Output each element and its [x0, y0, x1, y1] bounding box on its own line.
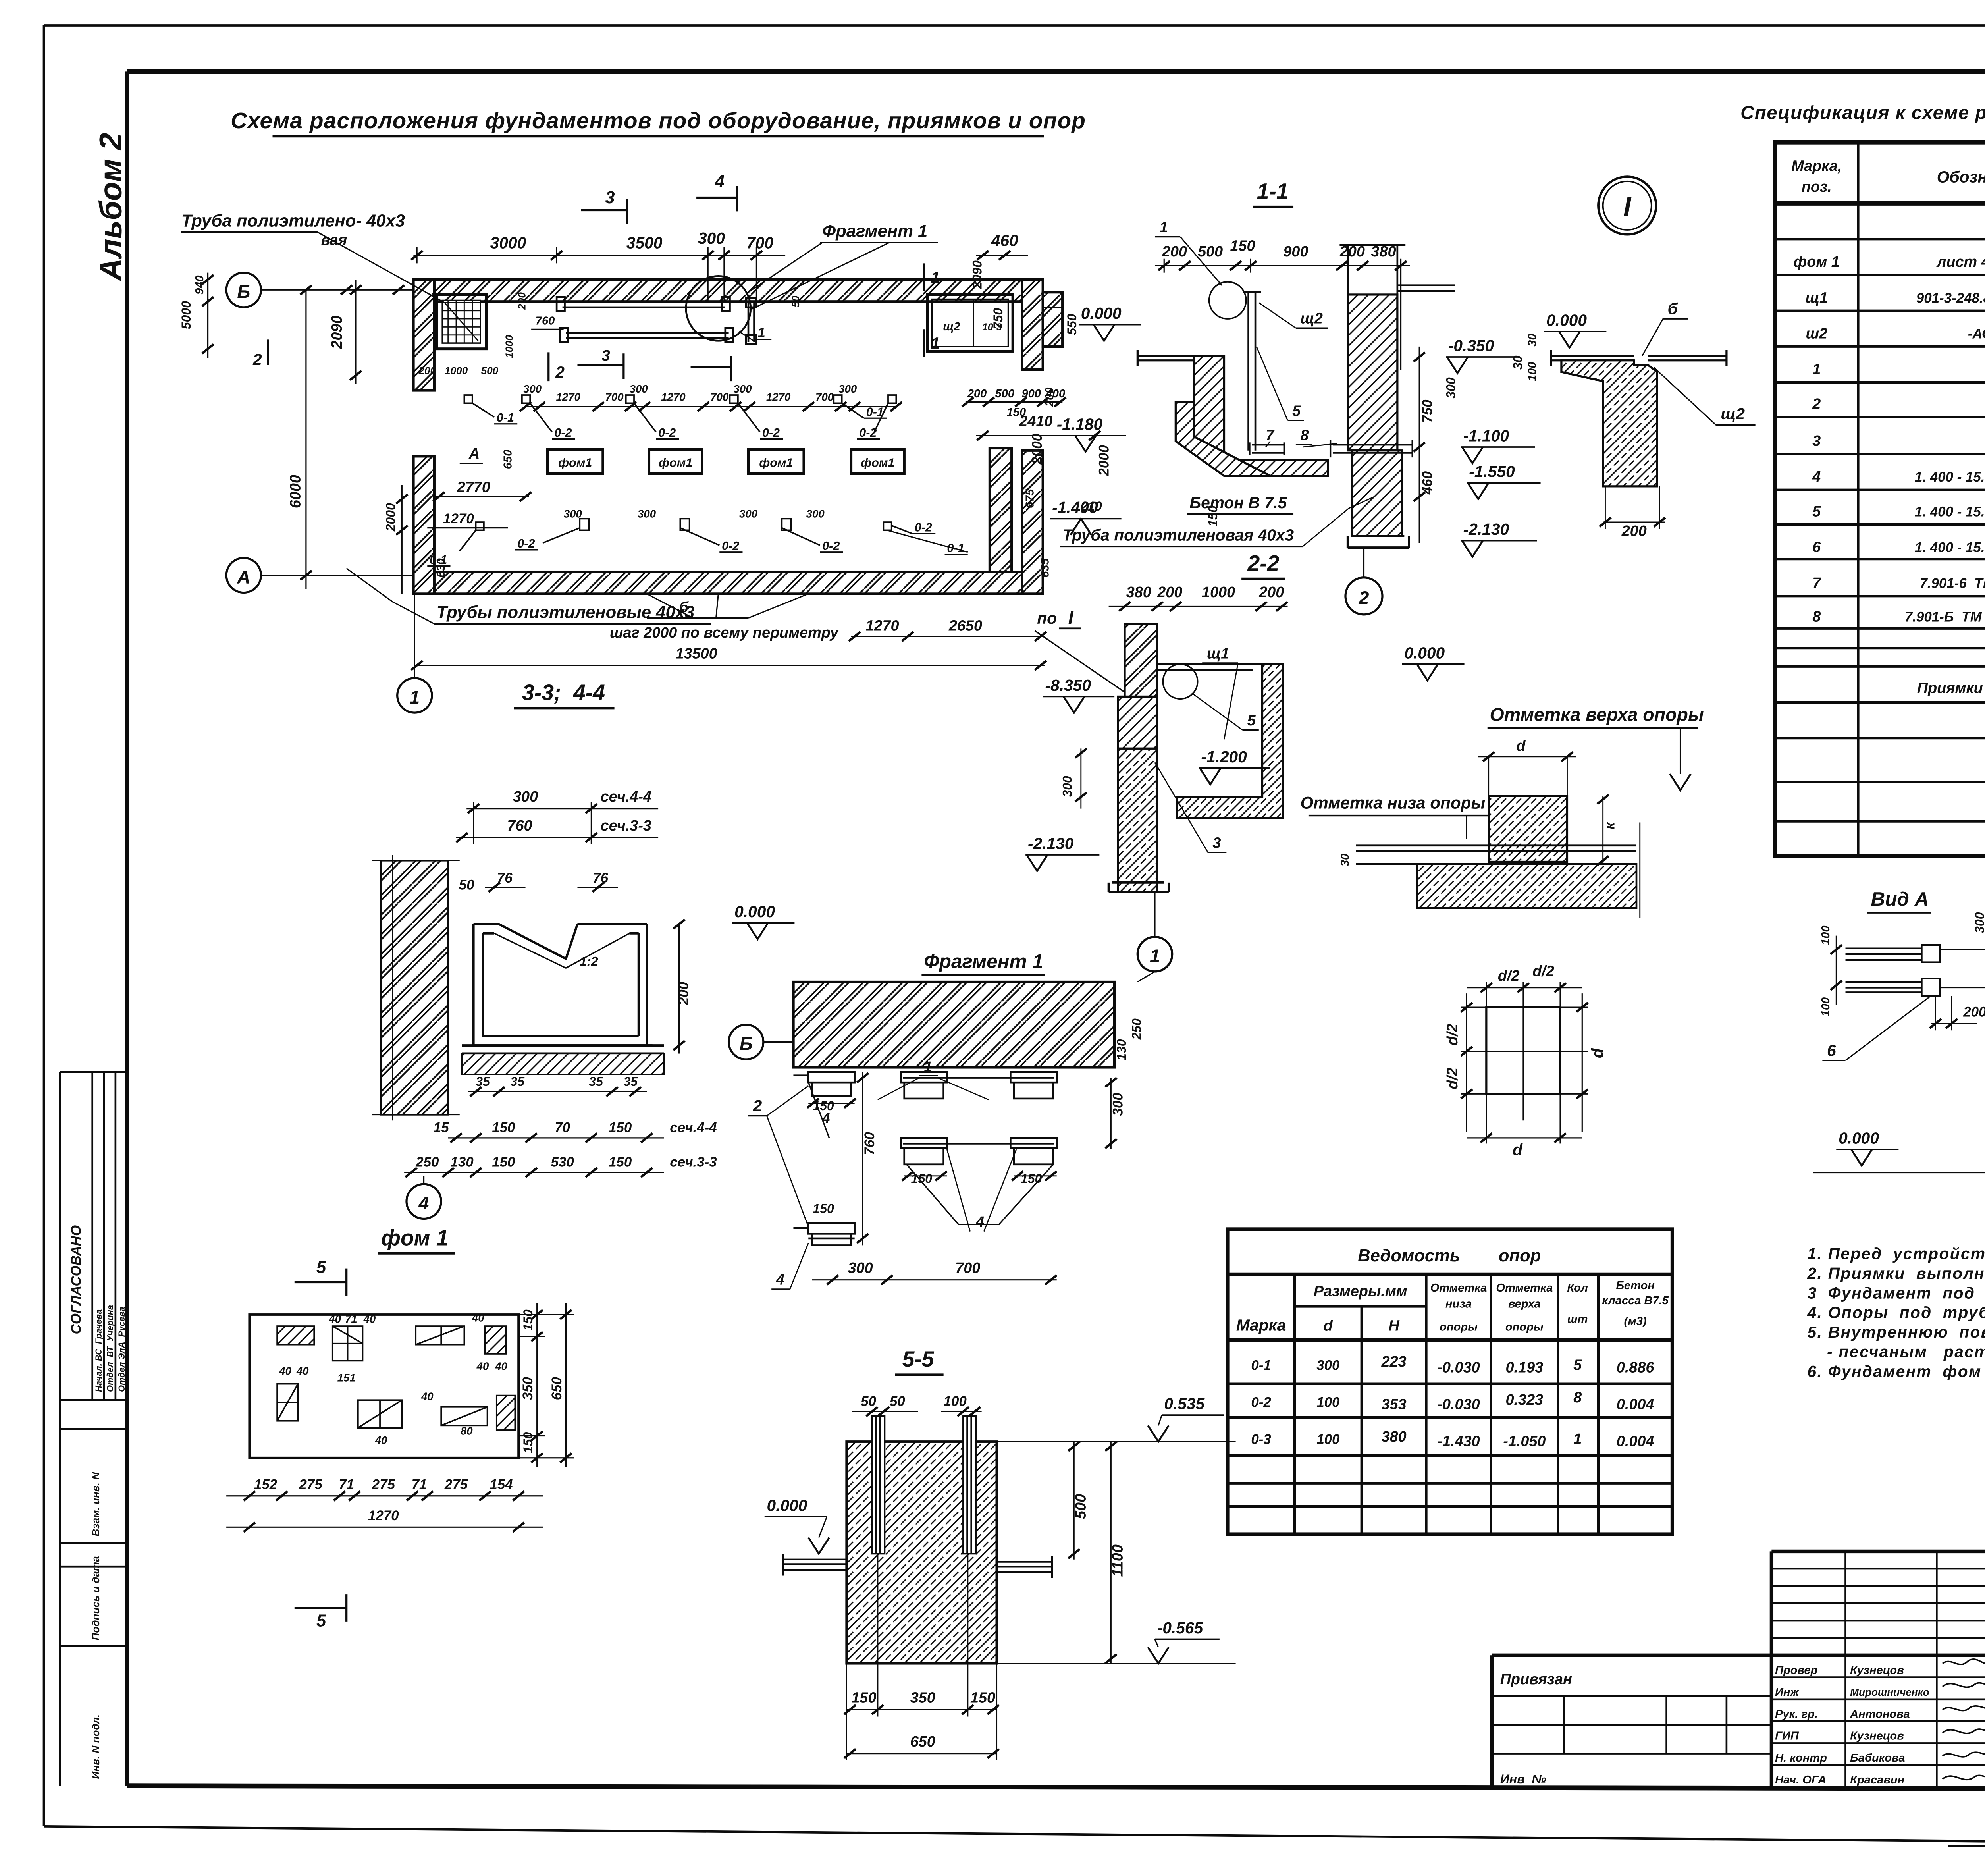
svg-text:460: 460 — [991, 231, 1018, 250]
svg-text:3: 3 — [1812, 433, 1821, 449]
svg-text:71: 71 — [345, 1313, 357, 1325]
svg-text:200: 200 — [1621, 523, 1647, 540]
svg-text:76: 76 — [593, 870, 608, 886]
svg-text:сеч.3-3: сеч.3-3 — [670, 1155, 717, 1170]
svg-text:-1.200: -1.200 — [1201, 748, 1247, 766]
svg-text:50: 50 — [890, 1394, 905, 1409]
svg-text:Отметка: Отметка — [1430, 1282, 1487, 1294]
svg-text:Инж: Инж — [1775, 1686, 1799, 1699]
svg-text:2. Приямки выполнить из бет: 2. Приямки выполнить из бетона класса В … — [1807, 1264, 1985, 1282]
svg-text:1: 1 — [409, 687, 420, 708]
svg-text:ш2: ш2 — [1806, 325, 1827, 342]
svg-text:-8.350: -8.350 — [1045, 676, 1091, 694]
svg-text:40: 40 — [296, 1365, 309, 1377]
svg-text:Н. контр: Н. контр — [1775, 1752, 1827, 1764]
svg-text:-2.130: -2.130 — [1463, 520, 1509, 538]
svg-text:-1.430: -1.430 — [1437, 1433, 1480, 1450]
svg-text:530: 530 — [551, 1155, 574, 1170]
svg-text:71: 71 — [339, 1477, 354, 1492]
svg-text:0.000: 0.000 — [734, 902, 775, 921]
svg-text:фом1: фом1 — [558, 456, 592, 469]
svg-text:2: 2 — [1812, 396, 1821, 413]
svg-text:-1.180: -1.180 — [1057, 415, 1103, 433]
svg-text:1270: 1270 — [556, 391, 580, 403]
svg-text:7.901-6 ТМ 131.05.00: 7.901-6 ТМ 131.05.00 — [1919, 576, 1985, 591]
svg-text:380: 380 — [1382, 1429, 1407, 1445]
svg-text:35: 35 — [510, 1074, 525, 1089]
svg-text:4: 4 — [418, 1193, 429, 1213]
svg-text:8: 8 — [1812, 608, 1821, 625]
svg-text:0.535: 0.535 — [1164, 1395, 1205, 1413]
svg-text:500: 500 — [1072, 1494, 1089, 1519]
svg-text:0.000: 0.000 — [1839, 1129, 1879, 1147]
svg-text:Антонова: Антонова — [1850, 1708, 1910, 1720]
svg-text:0.000: 0.000 — [1404, 644, 1445, 662]
svg-text:0-2: 0-2 — [822, 539, 840, 553]
svg-text:1270: 1270 — [368, 1508, 399, 1523]
svg-text:300: 300 — [1973, 912, 1985, 933]
svg-text:0-2: 0-2 — [658, 426, 676, 440]
svg-text:фом1: фом1 — [659, 456, 692, 469]
svg-text:сеч.3-3: сеч.3-3 — [601, 817, 651, 834]
svg-text:6. Фундамент фом 1 выполнить: 6. Фундамент фом 1 выполнить после получ… — [1808, 1362, 1985, 1380]
svg-text:13500: 13500 — [676, 645, 717, 662]
svg-text:40: 40 — [472, 1311, 484, 1324]
svg-text:70: 70 — [555, 1120, 570, 1135]
svg-text:500: 500 — [481, 365, 499, 377]
svg-text:1000: 1000 — [445, 365, 468, 377]
svg-text:щ2: щ2 — [1301, 310, 1323, 327]
svg-text:СОГЛАСОВАНО: СОГЛАСОВАНО — [69, 1225, 84, 1334]
svg-text:4: 4 — [776, 1271, 784, 1288]
svg-text:щ1: щ1 — [1207, 645, 1229, 662]
svg-text:Спецификация к схеме расположе: Спецификация к схеме расположения фундам… — [1740, 102, 1985, 123]
svg-text:Отметка: Отметка — [1496, 1282, 1553, 1294]
svg-text:4. Опоры под трубопроводы в: 4. Опоры под трубопроводы выполнять из б… — [1807, 1303, 1985, 1322]
svg-text:1: 1 — [1160, 219, 1168, 236]
svg-text:щ2: щ2 — [1721, 405, 1745, 423]
svg-text:Рук. гр.: Рук. гр. — [1775, 1708, 1818, 1720]
svg-text:(м3): (м3) — [1624, 1315, 1647, 1328]
svg-text:Марка: Марка — [1236, 1316, 1286, 1334]
svg-text:100: 100 — [1819, 997, 1832, 1017]
svg-text:-0.030: -0.030 — [1437, 1396, 1480, 1413]
svg-text:4: 4 — [975, 1214, 984, 1230]
svg-text:3: 3 — [605, 188, 615, 207]
svg-text:2770: 2770 — [457, 479, 490, 496]
svg-text:35: 35 — [624, 1074, 638, 1089]
svg-text:275: 275 — [299, 1477, 322, 1492]
svg-text:3500: 3500 — [626, 234, 663, 252]
svg-text:5: 5 — [1812, 503, 1821, 520]
svg-text:0.000: 0.000 — [1546, 311, 1587, 329]
svg-text:760: 760 — [536, 315, 555, 328]
svg-text:300: 300 — [739, 507, 758, 520]
svg-text:5: 5 — [316, 1612, 326, 1631]
svg-text:Обозначение: Обозначение — [1937, 168, 1985, 186]
svg-text:300: 300 — [806, 507, 825, 520]
svg-text:Схема расположения фундаментов: Схема расположения фундаментов под обору… — [231, 108, 1086, 133]
svg-text:152: 152 — [254, 1477, 278, 1492]
svg-text:300: 300 — [630, 383, 648, 395]
svg-text:50: 50 — [790, 295, 802, 307]
svg-text:фом 1: фом 1 — [381, 1225, 449, 1250]
svg-text:3-3; 4-4: 3-3; 4-4 — [522, 680, 605, 705]
svg-text:1-1: 1-1 — [1257, 179, 1289, 203]
svg-text:353: 353 — [1382, 1396, 1407, 1413]
svg-text:- песчаным раствором.: - песчаным раствором. — [1827, 1343, 1985, 1361]
svg-text:300: 300 — [1110, 1093, 1126, 1116]
svg-text:300: 300 — [513, 789, 538, 805]
svg-text:-2.130: -2.130 — [1028, 834, 1074, 852]
svg-text:5: 5 — [316, 1258, 326, 1277]
svg-text:40: 40 — [279, 1365, 291, 1377]
svg-text:5: 5 — [1573, 1357, 1582, 1374]
svg-text:15: 15 — [434, 1120, 449, 1135]
svg-text:Труба полиэтиленовая 40х3: Труба полиэтиленовая 40х3 — [1062, 526, 1294, 544]
svg-text:I: I — [1623, 191, 1632, 222]
svg-text:0.323: 0.323 — [1506, 1392, 1544, 1408]
svg-text:2000: 2000 — [384, 503, 398, 532]
svg-text:130: 130 — [1114, 1039, 1129, 1060]
svg-text:30: 30 — [1511, 355, 1525, 370]
svg-text:Нач. ОГА: Нач. ОГА — [1775, 1774, 1826, 1786]
svg-text:фом1: фом1 — [759, 456, 793, 469]
svg-text:к: к — [1602, 821, 1618, 829]
svg-text:550: 550 — [1065, 314, 1079, 335]
svg-text:8: 8 — [1301, 427, 1309, 444]
svg-text:0.004: 0.004 — [1617, 1433, 1654, 1450]
svg-text:0-2: 0-2 — [554, 426, 572, 440]
svg-text:760: 760 — [507, 817, 532, 834]
svg-text:2: 2 — [753, 1097, 762, 1115]
svg-text:700: 700 — [710, 391, 729, 403]
svg-text:0.000: 0.000 — [767, 1496, 807, 1515]
svg-text:-1.550: -1.550 — [1469, 463, 1515, 481]
svg-text:d: d — [1517, 738, 1526, 754]
svg-text:-АС.И.002: -АС.И.002 — [1968, 326, 1985, 341]
svg-text:300: 300 — [1060, 776, 1075, 797]
svg-text:Подпись и дата: Подпись и дата — [90, 1556, 102, 1640]
svg-text:d/2: d/2 — [1444, 1024, 1461, 1045]
svg-text:3: 3 — [602, 347, 610, 364]
svg-text:100: 100 — [944, 1394, 967, 1409]
svg-text:150: 150 — [1230, 237, 1255, 254]
svg-text:Вид А: Вид А — [1871, 888, 1929, 910]
svg-text:5: 5 — [1292, 403, 1301, 419]
svg-text:Б: Б — [237, 281, 250, 302]
svg-text:151: 151 — [337, 1372, 356, 1384]
svg-text:0.004: 0.004 — [1617, 1396, 1654, 1413]
svg-text:d/2: d/2 — [1532, 963, 1554, 980]
svg-text:275: 275 — [444, 1477, 468, 1492]
svg-text:1. 400 - 15. В1. 120 - 16: 1. 400 - 15. В1. 120 - 16 — [1915, 540, 1985, 555]
svg-text:2090: 2090 — [970, 260, 985, 289]
svg-text:Отметка низа опоры: Отметка низа опоры — [1301, 794, 1486, 812]
svg-text:2: 2 — [1359, 588, 1369, 608]
svg-text:2410: 2410 — [1019, 413, 1052, 430]
svg-text:2-2: 2-2 — [1247, 551, 1279, 575]
svg-text:2: 2 — [555, 363, 565, 381]
svg-text:650: 650 — [910, 1733, 935, 1750]
svg-text:2000: 2000 — [1029, 433, 1045, 465]
svg-text:Привязан: Привязан — [1500, 1671, 1572, 1688]
svg-text:2650: 2650 — [948, 618, 982, 634]
svg-text:5: 5 — [1247, 712, 1256, 729]
svg-text:100: 100 — [1526, 362, 1539, 382]
svg-text:щ1: щ1 — [1806, 289, 1828, 306]
svg-text:30: 30 — [1339, 854, 1352, 866]
svg-text:675: 675 — [1024, 489, 1037, 508]
svg-text:35: 35 — [476, 1074, 490, 1089]
svg-text:Бабикова: Бабикова — [1850, 1752, 1905, 1764]
svg-text:40: 40 — [495, 1360, 507, 1373]
svg-text:760: 760 — [862, 1132, 877, 1155]
svg-text:0.193: 0.193 — [1506, 1359, 1544, 1376]
svg-text:сеч.4-4: сеч.4-4 — [670, 1120, 717, 1135]
svg-text:1. Перед устройством пола з: 1. Перед устройством пола заложить трубы… — [1808, 1244, 1985, 1263]
svg-text:0-1: 0-1 — [947, 542, 964, 555]
svg-text:6000: 6000 — [287, 475, 304, 508]
svg-text:щ2: щ2 — [943, 320, 960, 333]
svg-text:6: 6 — [1812, 539, 1821, 556]
svg-text:2000: 2000 — [1097, 445, 1112, 476]
svg-text:2090: 2090 — [329, 316, 345, 349]
svg-text:150: 150 — [813, 1201, 834, 1216]
svg-text:750: 750 — [991, 308, 1005, 330]
svg-text:200: 200 — [1963, 1004, 1985, 1020]
svg-text:0-2: 0-2 — [762, 426, 780, 440]
svg-text:Фрагмент 1: Фрагмент 1 — [822, 222, 927, 241]
svg-text:низа: низа — [1445, 1298, 1472, 1311]
svg-text:635: 635 — [1039, 558, 1051, 577]
svg-text:фом 1: фом 1 — [1794, 254, 1840, 270]
svg-text:40: 40 — [375, 1434, 387, 1446]
svg-text:150: 150 — [911, 1171, 933, 1186]
svg-text:300: 300 — [733, 383, 752, 395]
svg-text:150: 150 — [609, 1120, 632, 1135]
svg-text:1: 1 — [1150, 946, 1160, 966]
svg-text:d: d — [1588, 1048, 1607, 1058]
svg-text:8: 8 — [1573, 1389, 1582, 1406]
svg-text:Кузнецов: Кузнецов — [1850, 1664, 1904, 1677]
svg-text:150: 150 — [851, 1690, 876, 1706]
svg-text:250: 250 — [1129, 1018, 1144, 1040]
svg-text:250: 250 — [415, 1155, 439, 1170]
svg-text:40: 40 — [421, 1390, 434, 1402]
svg-text:7: 7 — [1812, 575, 1821, 592]
svg-text:Мирошниченко: Мирошниченко — [1850, 1686, 1929, 1698]
svg-text:Начал. ВС Грачева: Начал. ВС Грачева — [94, 1309, 104, 1392]
svg-text:опоры: опоры — [1440, 1321, 1478, 1334]
svg-text:шт: шт — [1567, 1313, 1588, 1325]
svg-text:630: 630 — [435, 558, 447, 578]
svg-text:0-2: 0-2 — [1251, 1395, 1271, 1410]
svg-text:-1.050: -1.050 — [1503, 1433, 1546, 1450]
svg-text:300: 300 — [1316, 1358, 1340, 1373]
svg-text:100: 100 — [1819, 925, 1832, 945]
svg-text:d: d — [1324, 1318, 1333, 1334]
svg-text:1270: 1270 — [443, 511, 474, 526]
svg-text:50: 50 — [861, 1394, 876, 1409]
svg-text:d: d — [1513, 1140, 1523, 1159]
svg-text:Кузнецов: Кузнецов — [1850, 1730, 1904, 1743]
svg-text:Труба полиэтилено- 40х3: Труба полиэтилено- 40х3 — [181, 211, 405, 230]
svg-text:I: I — [1068, 607, 1074, 628]
svg-text:350: 350 — [520, 1377, 536, 1400]
svg-text:4: 4 — [1812, 469, 1821, 485]
svg-text:300: 300 — [1443, 377, 1458, 399]
svg-text:300: 300 — [698, 229, 725, 247]
svg-text:0-2: 0-2 — [722, 539, 739, 553]
svg-text:700: 700 — [815, 391, 834, 403]
svg-text:1000: 1000 — [503, 335, 515, 358]
svg-text:40: 40 — [363, 1313, 376, 1325]
svg-text:200: 200 — [418, 365, 436, 377]
svg-text:7: 7 — [1266, 427, 1275, 444]
svg-text:6: 6 — [1827, 1041, 1836, 1059]
svg-text:750: 750 — [1420, 399, 1435, 423]
svg-text:700: 700 — [955, 1260, 980, 1276]
svg-text:40: 40 — [328, 1313, 341, 1325]
svg-text:Отдел ЭлА Русева: Отдел ЭлА Русева — [117, 1307, 127, 1392]
svg-text:Отметка верха опоры: Отметка верха опоры — [1490, 704, 1704, 725]
svg-text:-1.400: -1.400 — [1052, 498, 1098, 517]
svg-text:Бетон: Бетон — [1616, 1279, 1655, 1292]
svg-text:300: 300 — [848, 1260, 873, 1276]
svg-text:1000: 1000 — [1202, 584, 1235, 601]
svg-text:650: 650 — [502, 450, 515, 469]
svg-text:300: 300 — [638, 507, 656, 520]
svg-text:0-3: 0-3 — [1251, 1432, 1271, 1447]
svg-text:3000: 3000 — [490, 234, 526, 252]
svg-text:7.901-Б ТМ 131.05.00 - 03: 7.901-Б ТМ 131.05.00 - 03 — [1905, 609, 1985, 625]
svg-text:150: 150 — [492, 1120, 515, 1135]
svg-text:1. 400 - 15. В1. 410 - 03: 1. 400 - 15. В1. 410 - 03 — [1915, 469, 1985, 485]
svg-text:верха: верха — [1508, 1298, 1541, 1311]
svg-text:223: 223 — [1381, 1353, 1407, 1370]
svg-text:2: 2 — [252, 350, 262, 368]
svg-text:0-1: 0-1 — [1251, 1358, 1271, 1373]
svg-text:940: 940 — [193, 275, 206, 295]
svg-text:1: 1 — [931, 268, 940, 287]
svg-text:по: по — [1037, 609, 1057, 627]
svg-text:сеч.4-4: сеч.4-4 — [601, 789, 651, 805]
svg-text:Бетон В 7.5: Бетон В 7.5 — [1189, 494, 1287, 512]
svg-text:154: 154 — [490, 1477, 513, 1492]
svg-text:-0.350: -0.350 — [1448, 336, 1494, 355]
svg-text:500: 500 — [995, 388, 1015, 400]
svg-text:лист 4: лист 4 — [1936, 254, 1985, 270]
svg-text:100: 100 — [1316, 1432, 1340, 1447]
svg-text:300: 300 — [523, 383, 542, 395]
svg-text:опоры: опоры — [1505, 1321, 1544, 1334]
svg-text:200: 200 — [1157, 584, 1182, 601]
svg-text:150: 150 — [492, 1155, 515, 1170]
svg-text:Фрагмент 1: Фрагмент 1 — [924, 951, 1043, 972]
svg-text:200: 200 — [967, 388, 987, 400]
svg-text:Красавин: Красавин — [1850, 1774, 1904, 1786]
svg-text:900: 900 — [1283, 243, 1308, 260]
svg-text:0-2: 0-2 — [517, 537, 535, 550]
svg-text:5000: 5000 — [179, 301, 193, 329]
svg-text:300: 300 — [838, 383, 857, 395]
svg-text:0-2: 0-2 — [859, 426, 877, 440]
svg-text:Марка,: Марка, — [1791, 158, 1842, 175]
svg-text:30: 30 — [1526, 334, 1539, 346]
svg-text:Инв №: Инв № — [1500, 1772, 1546, 1786]
svg-text:650: 650 — [549, 1377, 565, 1400]
svg-text:1. 400 - 15. В1. 540 - 09: 1. 400 - 15. В1. 540 - 09 — [1915, 504, 1985, 520]
svg-text:130: 130 — [450, 1155, 474, 1170]
svg-text:460: 460 — [1420, 471, 1435, 495]
svg-text:Взам. инв. N: Взам. инв. N — [90, 1472, 102, 1537]
svg-text:1270: 1270 — [865, 618, 899, 634]
svg-text:350: 350 — [910, 1690, 935, 1706]
svg-text:поз.: поз. — [1802, 179, 1832, 195]
svg-text:-1.100: -1.100 — [1463, 426, 1509, 445]
svg-text:Кол: Кол — [1567, 1282, 1588, 1294]
svg-text:1270: 1270 — [766, 391, 791, 403]
svg-text:150: 150 — [521, 1432, 535, 1454]
svg-text:4: 4 — [715, 172, 725, 191]
svg-text:1: 1 — [931, 334, 940, 353]
svg-text:1: 1 — [924, 1059, 932, 1076]
svg-text:150: 150 — [970, 1690, 995, 1706]
svg-text:шаг 2000 по всему периметру: шаг 2000 по всему периметру — [610, 625, 839, 641]
svg-text:0-1: 0-1 — [497, 411, 514, 424]
svg-text:1: 1 — [757, 325, 765, 341]
svg-text:Трубы полиэтиленовые 40х3: Трубы полиэтиленовые 40х3 — [437, 603, 695, 622]
svg-text:Б: Б — [740, 1033, 753, 1054]
svg-text:700: 700 — [746, 234, 773, 252]
svg-text:Альбом 2: Альбом 2 — [93, 133, 128, 281]
svg-text:А: А — [468, 445, 480, 462]
svg-text:0-2: 0-2 — [915, 521, 932, 534]
svg-text:380: 380 — [1126, 584, 1151, 601]
svg-text:700: 700 — [605, 391, 624, 403]
svg-text:901-3-248.88-АС.И.001: 901-3-248.88-АС.И.001 — [1916, 290, 1985, 306]
svg-text:275: 275 — [372, 1477, 395, 1492]
svg-text:3 Фундамент под оборудовани: 3 Фундамент под оборудование выполнять и… — [1808, 1284, 1985, 1302]
svg-text:0.000: 0.000 — [1081, 304, 1122, 322]
svg-text:1100: 1100 — [1110, 1544, 1126, 1577]
svg-text:Размеры.мм: Размеры.мм — [1314, 1283, 1407, 1300]
svg-text:-0.565: -0.565 — [1157, 1619, 1204, 1637]
svg-text:Провер: Провер — [1775, 1664, 1817, 1677]
svg-text:40: 40 — [476, 1360, 489, 1373]
svg-text:100: 100 — [1316, 1395, 1340, 1410]
svg-text:фом1: фом1 — [861, 456, 894, 469]
svg-text:Н: Н — [1388, 1318, 1399, 1334]
svg-text:200: 200 — [676, 981, 692, 1005]
svg-text:1:2: 1:2 — [580, 954, 598, 968]
svg-text:б: б — [1668, 299, 1679, 318]
svg-text:Приямки: Приямки — [1917, 680, 1983, 697]
svg-text:0.886: 0.886 — [1617, 1359, 1655, 1376]
svg-text:Ведомость опор: Ведомость опор — [1358, 1246, 1541, 1265]
svg-text:Инв. N подл.: Инв. N подл. — [90, 1714, 102, 1779]
svg-text:200: 200 — [1162, 243, 1187, 260]
svg-text:1: 1 — [1812, 361, 1821, 378]
svg-text:ГИП: ГИП — [1775, 1730, 1799, 1743]
svg-text:71: 71 — [412, 1477, 427, 1492]
svg-text:35: 35 — [589, 1074, 603, 1089]
svg-text:150: 150 — [521, 1309, 535, 1331]
svg-text:5. Внутреннюю поверхность пр: 5. Внутреннюю поверхность приямка затере… — [1808, 1323, 1985, 1341]
svg-text:d/2: d/2 — [1498, 968, 1520, 984]
svg-text:200: 200 — [516, 292, 528, 310]
